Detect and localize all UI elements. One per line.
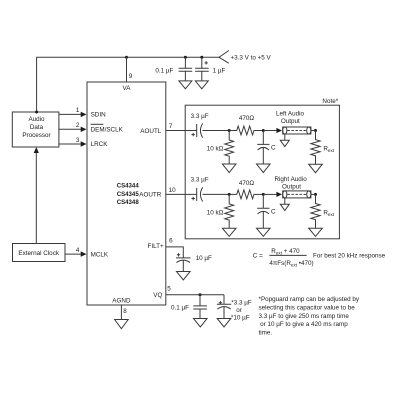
node B row2 xyxy=(262,193,265,196)
wire cylinder to node row2 xyxy=(311,193,316,195)
capacitor C row1 xyxy=(257,131,269,165)
svg-text:5: 5 xyxy=(167,286,171,293)
wire VA drop pin 9 xyxy=(126,57,128,81)
plus sign 3.3uF left xyxy=(192,133,195,136)
svg-text:10: 10 xyxy=(169,187,177,194)
svg-text:FILT+: FILT+ xyxy=(148,243,164,250)
plus sign 10uF xyxy=(177,253,180,256)
arrowhead DEM/SCLK xyxy=(81,127,87,132)
ground under connector row1 xyxy=(280,134,289,147)
ground under 10k row1 xyxy=(222,164,236,173)
node A row2 xyxy=(228,193,231,196)
svg-text:AOUTL: AOUTL xyxy=(140,128,161,135)
svg-text:Left Audio: Left Audio xyxy=(276,111,305,118)
svg-text:VA: VA xyxy=(123,85,132,92)
resistor 470 row2 xyxy=(229,190,263,199)
svg-text:3.3 µF: 3.3 µF xyxy=(191,113,209,120)
capacitor 3.3uF right (polarized series) xyxy=(197,187,230,201)
pin 8 AGND stub xyxy=(120,305,122,320)
Audio Data Processor box xyxy=(12,112,59,147)
svg-text:DEM/SCLK: DEM/SCLK xyxy=(91,127,124,134)
svg-text:AOUTR: AOUTR xyxy=(139,192,161,199)
svg-text:+3.3 V to +5 V: +3.3 V to +5 V xyxy=(231,55,272,62)
svg-text:Output: Output xyxy=(281,118,300,125)
ground under Rext row1 xyxy=(309,164,323,173)
svg-text:C: C xyxy=(271,209,276,216)
svg-text:Data: Data xyxy=(30,124,44,131)
External Clock box xyxy=(13,244,66,262)
wire to output row1 xyxy=(263,130,277,132)
supply connector chevron xyxy=(219,51,229,64)
svg-text:470Ω: 470Ω xyxy=(239,115,255,122)
connector cylinder row1 xyxy=(283,127,311,134)
svg-text:VQ: VQ xyxy=(153,292,162,299)
wire AOUTR pin 10 xyxy=(166,193,197,195)
svg-text:10 kΩ: 10 kΩ xyxy=(207,145,224,152)
capacitor 10uF FILT+ (polarized) xyxy=(176,258,191,272)
node VQ xyxy=(199,293,202,296)
plus sign 3.3uF right xyxy=(192,197,195,200)
ground under 10k row2 xyxy=(222,228,236,236)
svg-text:3.3 µF to give 250 ms ramp tim: 3.3 µF to give 250 ms ramp time xyxy=(259,313,350,320)
arrowhead LRCK xyxy=(81,141,87,146)
plus sign 1uF xyxy=(205,61,208,64)
wire DEM/SCLK xyxy=(59,128,82,130)
svg-text:CS4348: CS4348 xyxy=(117,199,140,206)
node on rail for VA xyxy=(125,56,128,59)
svg-text:10 kΩ: 10 kΩ xyxy=(207,209,224,216)
node on ADP box top xyxy=(35,111,38,114)
capacitor 1uF xyxy=(195,57,209,81)
wire VQ xyxy=(166,294,224,296)
resistor 10k row1 xyxy=(225,131,234,165)
svg-text:9: 9 xyxy=(129,73,133,80)
ground under 10uF xyxy=(177,272,191,280)
wire external clock to ADP xyxy=(35,152,37,244)
svg-text:ext: ext xyxy=(328,148,335,153)
capacitor 0.1uF VQ xyxy=(193,295,207,319)
svg-text:MCLK: MCLK xyxy=(91,251,109,258)
resistor Rext row1 xyxy=(311,131,320,165)
resistor 470 row1 xyxy=(229,126,263,135)
capacitor 0.1uF decoupling xyxy=(179,57,193,81)
svg-text:CS4344: CS4344 xyxy=(117,183,140,190)
node A row1 xyxy=(228,129,231,132)
wire AOUTL pin 7 xyxy=(166,130,197,132)
svg-text:LRCK: LRCK xyxy=(91,141,109,148)
svg-text:2: 2 xyxy=(76,122,80,129)
arrowhead MCLK xyxy=(81,251,87,256)
wire LRCK xyxy=(59,143,82,145)
wire SDIN xyxy=(59,113,82,115)
wire to output row2 xyxy=(263,193,277,195)
svg-text:time.: time. xyxy=(259,330,273,337)
svg-text:0.1 µF: 0.1 µF xyxy=(155,68,173,75)
svg-text:or: or xyxy=(236,307,242,314)
svg-text:Audio: Audio xyxy=(28,116,45,123)
capacitor 3.3uF/10uF VQ (polarized) xyxy=(217,295,231,319)
ground under VQ cap xyxy=(217,319,231,327)
svg-text:Processor: Processor xyxy=(22,132,50,139)
svg-text:C =: C = xyxy=(253,252,263,259)
wire MCLK xyxy=(65,253,82,255)
svg-text:CS4345: CS4345 xyxy=(117,191,140,198)
wire supply rail top xyxy=(37,57,219,112)
resistor Rext row2 xyxy=(311,194,320,228)
svg-text:or 10 µF to give a 420 ms ramp: or 10 µF to give a 420 ms ramp xyxy=(260,321,348,328)
svg-text:1: 1 xyxy=(76,107,80,114)
svg-text:C: C xyxy=(271,145,276,152)
arrowhead into ADP bottom xyxy=(34,147,39,153)
capacitor 3.3uF left (polarized series) xyxy=(197,123,230,137)
node on rail for 0.1uF xyxy=(184,56,187,59)
svg-text:10 µF: 10 µF xyxy=(196,255,212,262)
svg-text:SDIN: SDIN xyxy=(91,112,106,119)
ground under 0.1uF xyxy=(179,81,192,89)
svg-text:For best 20 kHz response: For best 20 kHz response xyxy=(313,252,386,259)
ground under C row1 xyxy=(257,164,271,173)
ground under Rext row2 xyxy=(309,228,323,236)
arrowhead SDIN xyxy=(81,112,87,117)
svg-text:3.3 µF: 3.3 µF xyxy=(191,177,209,184)
svg-text:8: 8 xyxy=(123,308,127,315)
wire FILT+ xyxy=(166,247,184,258)
svg-text:AGND: AGND xyxy=(112,298,131,305)
note box xyxy=(185,105,339,239)
capacitor C row2 xyxy=(257,194,269,228)
ground AGND xyxy=(115,320,129,329)
node on rail for 1uF xyxy=(200,56,203,59)
svg-text:selecting this capacitor value: selecting this capacitor value to be xyxy=(259,304,356,311)
resistor 10k row2 xyxy=(225,194,234,228)
node C row1 xyxy=(314,129,317,132)
svg-text:470Ω: 470Ω xyxy=(239,180,255,187)
ground under 0.1uF VQ xyxy=(194,319,208,327)
IC U1 CS4344/CS4345/CS4348 DAC box xyxy=(87,82,166,305)
svg-text:*3.3 µF: *3.3 µF xyxy=(231,300,252,307)
svg-text:7: 7 xyxy=(169,123,173,130)
wire cylinder to node row1 xyxy=(311,130,316,132)
ground under connector row2 xyxy=(280,198,289,211)
connector cylinder row2 xyxy=(283,191,311,198)
node B row1 xyxy=(262,129,265,132)
svg-text:*10 µF: *10 µF xyxy=(231,315,250,322)
svg-text:0.1 µF: 0.1 µF xyxy=(171,304,189,311)
svg-text:3: 3 xyxy=(76,137,80,144)
node C row2 xyxy=(314,193,317,196)
svg-text:*Popguard ramp can be adjusted: *Popguard ramp can be adjusted by xyxy=(259,296,360,303)
svg-text:Note*: Note* xyxy=(322,98,338,105)
ground under 1uF xyxy=(195,81,208,89)
svg-text:Right Audio: Right Audio xyxy=(274,176,307,183)
ground under C row2 xyxy=(257,228,271,236)
plus sign VQ cap xyxy=(219,301,222,304)
svg-text:Output: Output xyxy=(282,184,301,191)
svg-text:4: 4 xyxy=(76,247,80,254)
svg-text:ext: ext xyxy=(328,212,335,217)
svg-text:6: 6 xyxy=(169,237,173,244)
svg-text:External Clock: External Clock xyxy=(18,250,59,257)
svg-text:1 µF: 1 µF xyxy=(213,68,226,75)
svg-text:Rext + 470: Rext + 470 xyxy=(271,248,300,256)
arrowhead output row2 xyxy=(276,192,282,197)
arrowhead output row1 xyxy=(276,128,282,133)
